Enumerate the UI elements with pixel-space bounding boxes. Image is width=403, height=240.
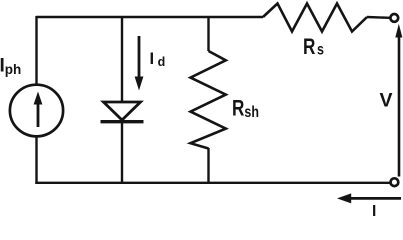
wire left vertical lower	[35, 137, 37, 185]
wire bottom horizontal	[35, 182, 389, 184]
wire diode branch upper	[121, 16, 123, 102]
resistor R_sh	[191, 51, 226, 149]
wire Rsh branch upper	[207, 16, 209, 51]
wire Rsh branch lower	[207, 148, 209, 184]
current source arrow shaft	[37, 103, 40, 127]
svg-text:I: I	[372, 203, 376, 220]
I arrowhead	[337, 193, 351, 203]
wire top-left horizontal from corner to Rs	[36, 16, 263, 18]
diode triangle anode	[104, 102, 141, 120]
wire left vertical upper	[35, 16, 37, 85]
diode cathode bar	[101, 120, 144, 123]
svg-text:Rs: Rs	[303, 35, 324, 60]
voltage V arrow line	[398, 36, 401, 177]
wire diode branch lower	[121, 122, 123, 184]
top output terminal node	[390, 14, 398, 22]
bottom output terminal node	[391, 178, 399, 186]
svg-text:Rsh: Rsh	[232, 96, 259, 121]
current source arrowhead	[34, 92, 43, 105]
current I_d arrow shaft	[138, 36, 141, 78]
svg-text:V: V	[380, 90, 393, 112]
svg-text:Iph: Iph	[0, 56, 21, 78]
current I arrow shaft	[350, 197, 401, 200]
current source I_ph circle	[10, 85, 63, 137]
resistor R_s	[263, 4, 367, 32]
V arrowhead	[395, 24, 402, 38]
wire Rs to top terminal	[367, 16, 390, 19]
svg-text:Id: Id	[150, 50, 166, 69]
I_d arrowhead	[135, 77, 144, 91]
